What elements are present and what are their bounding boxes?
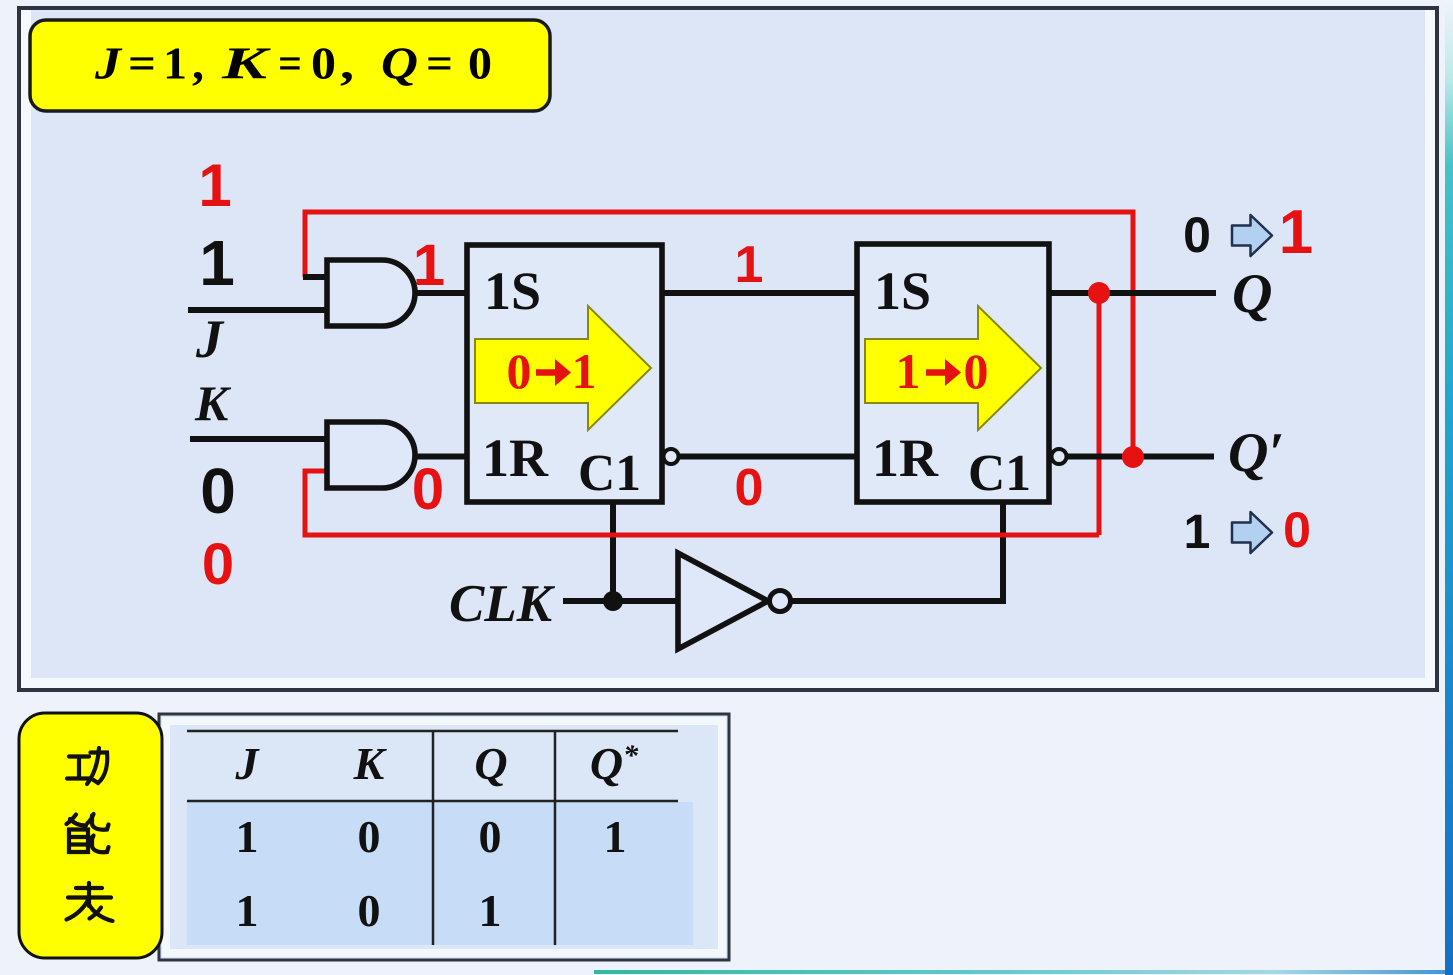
svg-text:1: 1 bbox=[572, 343, 597, 399]
svg-text:1R: 1R bbox=[482, 428, 549, 488]
svg-text:1: 1 bbox=[198, 152, 231, 219]
svg-text:1: 1 bbox=[479, 885, 502, 936]
svg-text:1: 1 bbox=[199, 227, 235, 299]
svg-text:CLK: CLK bbox=[449, 575, 556, 633]
svg-text:C1: C1 bbox=[968, 445, 1031, 502]
svg-text:0: 0 bbox=[1283, 502, 1311, 558]
svg-text:0: 0 bbox=[202, 532, 234, 597]
svg-text:0: 0 bbox=[479, 811, 502, 862]
svg-text:1: 1 bbox=[1279, 198, 1313, 267]
svg-text:0: 0 bbox=[358, 885, 381, 936]
svg-text:1S: 1S bbox=[874, 261, 931, 321]
svg-text:J: J bbox=[235, 738, 261, 789]
svg-text:0: 0 bbox=[200, 455, 236, 527]
svg-text:0: 0 bbox=[964, 343, 989, 399]
svg-text:J: J bbox=[195, 309, 225, 369]
svg-text:1: 1 bbox=[236, 885, 259, 936]
svg-text:J=1,K=0,Q=0: J=1,K=0,Q=0 bbox=[94, 39, 492, 89]
svg-text:1: 1 bbox=[236, 811, 259, 862]
svg-text:1S: 1S bbox=[484, 261, 541, 321]
svg-text:0: 0 bbox=[507, 343, 532, 399]
svg-text:0: 0 bbox=[735, 459, 764, 517]
svg-text:0: 0 bbox=[412, 457, 444, 522]
svg-text:K: K bbox=[194, 375, 232, 431]
svg-text:1: 1 bbox=[1184, 506, 1211, 559]
svg-text:1: 1 bbox=[413, 233, 445, 298]
svg-text:Q: Q bbox=[474, 738, 507, 789]
svg-text:1: 1 bbox=[604, 811, 627, 862]
svg-text:0: 0 bbox=[1183, 207, 1211, 263]
svg-text:Q′: Q′ bbox=[1228, 422, 1284, 484]
svg-text:1: 1 bbox=[735, 236, 764, 294]
svg-text:C1: C1 bbox=[578, 445, 641, 502]
svg-text:0: 0 bbox=[358, 811, 381, 862]
svg-text:1: 1 bbox=[896, 343, 921, 399]
svg-text:Q: Q bbox=[1232, 263, 1272, 325]
svg-text:K: K bbox=[353, 738, 388, 789]
svg-text:1R: 1R bbox=[872, 428, 939, 488]
